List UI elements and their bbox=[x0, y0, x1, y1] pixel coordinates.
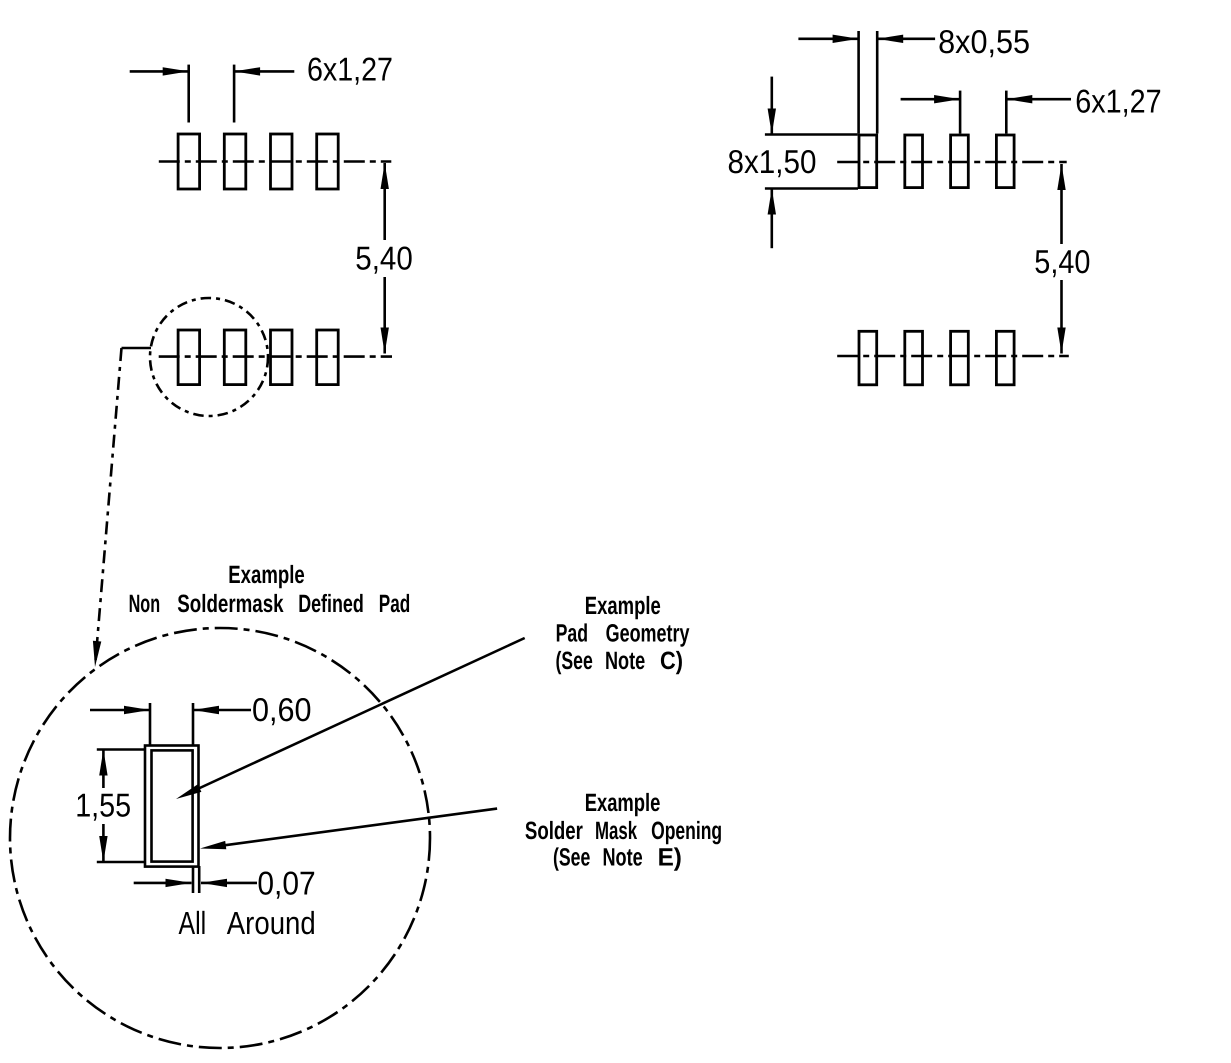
svg-text:5,40: 5,40 bbox=[1034, 243, 1090, 280]
svg-text:6x1,27: 6x1,27 bbox=[1075, 82, 1161, 119]
svg-text:Example: Example bbox=[585, 789, 661, 817]
svg-text:Pad: Pad bbox=[556, 620, 589, 648]
svg-text:0,60: 0,60 bbox=[252, 691, 312, 728]
pad row1 pad2 bbox=[905, 135, 923, 188]
pad row1 pad3 bbox=[951, 135, 969, 188]
detail big circle bbox=[10, 628, 430, 1048]
pad row2 pad3 bbox=[951, 331, 969, 385]
pad row1 pad4 bbox=[996, 135, 1014, 188]
pad rect (inner) bbox=[152, 750, 193, 861]
svg-text:Example: Example bbox=[585, 592, 661, 620]
svg-text:0,07: 0,07 bbox=[257, 864, 315, 901]
svg-text:Solder: Solder bbox=[525, 817, 583, 845]
centerline row2 bbox=[159, 355, 392, 358]
svg-text:8x1,50: 8x1,50 bbox=[728, 143, 817, 180]
leader solder mask opening bbox=[216, 809, 497, 847]
dimension 6x1,27 left fig bbox=[130, 70, 189, 73]
pad row1 pad4 bbox=[317, 134, 339, 189]
pad row1 pad1 bbox=[859, 135, 877, 188]
pad row2 pad2 bbox=[224, 330, 246, 385]
svg-text:C): C) bbox=[660, 647, 683, 675]
detail leader dashed line bbox=[96, 348, 122, 661]
dimension 6x1,27 right fig bbox=[901, 98, 961, 101]
centerline row2 right bbox=[837, 355, 1069, 358]
pad row2 pad3 bbox=[271, 330, 293, 385]
svg-text:8x0,55: 8x0,55 bbox=[938, 23, 1030, 60]
dimension 8x0,55 bbox=[798, 37, 858, 40]
svg-text:Geometry: Geometry bbox=[606, 620, 690, 648]
svg-text:(See: (See bbox=[553, 843, 590, 871]
detail leader elbow bbox=[122, 347, 152, 350]
dimension 0,60 bbox=[90, 709, 150, 712]
pad row2 pad1 bbox=[178, 330, 200, 385]
pad row2 pad4 bbox=[996, 331, 1014, 385]
pad row2 pad1 bbox=[859, 331, 877, 385]
svg-text:Mask: Mask bbox=[595, 817, 637, 845]
svg-text:Opening: Opening bbox=[651, 817, 722, 845]
svg-text:Around: Around bbox=[227, 905, 316, 941]
pad row2 pad2 bbox=[905, 331, 923, 385]
svg-text:Defined: Defined bbox=[298, 590, 364, 618]
dimension 5,40 left fig bbox=[381, 163, 389, 189]
svg-text:Soldermask: Soldermask bbox=[177, 590, 283, 618]
svg-text:Note: Note bbox=[603, 843, 643, 871]
solder mask opening rect (outer) bbox=[145, 746, 199, 867]
dimension 8x1,50 bbox=[765, 133, 858, 136]
svg-text:Note: Note bbox=[605, 647, 645, 675]
pad row1 pad1 bbox=[178, 134, 200, 189]
detail circle bbox=[150, 298, 268, 416]
centerline row1 right bbox=[837, 161, 1066, 164]
leader pad geometry bbox=[190, 638, 525, 793]
detail leader arrowhead bbox=[93, 641, 101, 667]
svg-text:E): E) bbox=[658, 843, 682, 871]
dimension 1,55 bbox=[97, 748, 145, 751]
svg-text:5,40: 5,40 bbox=[355, 239, 413, 276]
svg-text:6x1,27: 6x1,27 bbox=[307, 51, 393, 88]
svg-text:1,55: 1,55 bbox=[75, 787, 131, 824]
centerline row1 bbox=[159, 160, 391, 163]
svg-text:Non: Non bbox=[129, 590, 161, 618]
dimension 0,07 bbox=[192, 866, 195, 893]
svg-text:Pad: Pad bbox=[379, 590, 411, 618]
svg-text:(See: (See bbox=[556, 647, 593, 675]
pad row2 pad4 bbox=[317, 330, 339, 385]
pad row1 pad3 bbox=[271, 134, 293, 189]
svg-text:All: All bbox=[179, 905, 207, 941]
pad row1 pad2 bbox=[224, 134, 246, 189]
svg-text:Example: Example bbox=[228, 561, 304, 589]
dimension 5,40 right fig bbox=[1057, 164, 1065, 190]
